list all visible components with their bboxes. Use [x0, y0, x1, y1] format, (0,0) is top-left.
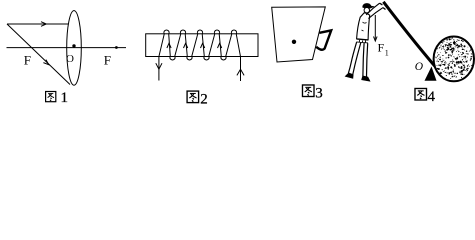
coil turn bottom arcs: [170, 57, 175, 60]
caption 图3: [302, 85, 314, 97]
rock: speckle texture: [435, 38, 472, 79]
left lead wire: [159, 34, 164, 81]
svg-text:2: 2: [200, 92, 208, 108]
caption 图2: [187, 91, 199, 103]
svg-text:4: 4: [428, 89, 436, 105]
right lead wire: [236, 34, 240, 81]
man: shirt marks: [362, 22, 367, 31]
man: belt: [356, 39, 368, 43]
man: left leg: [348, 42, 356, 73]
arrowhead on parallel ray: [41, 22, 46, 27]
left lead arrowhead (down): [156, 63, 162, 69]
caption 图1: [46, 92, 56, 102]
principal axis: [7, 47, 127, 49]
arrowhead on focal ray: [43, 60, 48, 65]
coil back wires: [175, 34, 181, 57]
man: head: [364, 8, 369, 13]
incident ray (through focus F): [7, 24, 70, 85]
incident ray (parallel to axis): [7, 23, 69, 25]
man: right shoe: [362, 76, 370, 81]
dot inside cup: [292, 40, 296, 44]
svg-text:F: F: [104, 52, 111, 67]
man: right leg: [363, 43, 364, 76]
man: arm lower: [368, 8, 383, 19]
core rectangle: [146, 34, 258, 57]
lever pole: [383, 2, 444, 78]
man: hands: [380, 3, 386, 9]
force arrow F1 (downward): [374, 15, 376, 40]
man: cap: [363, 3, 375, 8]
svg-text:O: O: [415, 61, 424, 73]
svg-text:3: 3: [315, 86, 323, 102]
man: left shoe: [345, 73, 353, 79]
svg-text:F: F: [378, 41, 385, 55]
right lead arrowhead (up): [237, 69, 244, 75]
coil front wires with current arrows: [169, 34, 171, 57]
svg-text:O: O: [66, 53, 74, 65]
svg-text:1: 1: [385, 49, 389, 58]
cup body outline: [272, 7, 326, 62]
caption 图4: [415, 88, 427, 100]
fulcrum triangle: [425, 67, 437, 81]
convex lens (ellipse): [67, 11, 82, 86]
optical centre dot: [72, 44, 75, 47]
man: torso: [357, 13, 370, 40]
man: arm upper: [366, 3, 379, 15]
coil turn top arcs: [164, 30, 169, 34]
svg-text:1: 1: [61, 90, 69, 106]
cup handle: [316, 30, 331, 49]
current arrowheads (upward): [167, 43, 171, 48]
rock: outline circle: [434, 37, 474, 82]
svg-text:F: F: [24, 52, 31, 67]
right focal point dot: [115, 46, 118, 49]
